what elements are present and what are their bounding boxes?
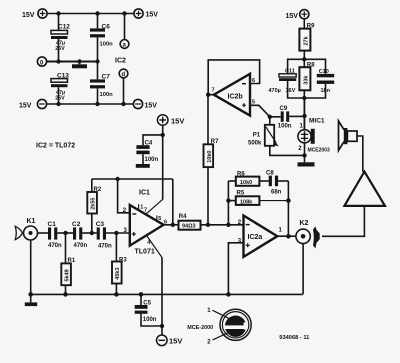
svg-text:100n: 100n <box>100 92 114 98</box>
node dot rail R1 <box>63 292 68 297</box>
wire C12 top <box>58 14 60 31</box>
capacitor C11 <box>279 59 304 98</box>
svg-text:C3: C3 <box>96 221 105 228</box>
connector K2 <box>296 220 310 244</box>
svg-text:C12: C12 <box>58 24 70 31</box>
svg-text:2k55: 2k55 <box>91 198 97 210</box>
node dot R2 bottom <box>90 231 94 235</box>
-15V terminal bottom-right <box>133 99 142 108</box>
pin 1 leader mic pinout <box>213 310 229 318</box>
node dot C7 bottom <box>95 102 99 106</box>
connector K1 <box>24 218 38 240</box>
svg-text:7: 7 <box>144 207 147 213</box>
node dot IC2a out <box>286 234 291 239</box>
svg-text:C11: C11 <box>285 69 295 75</box>
node dot P1 top <box>268 115 272 119</box>
resistor R5 <box>228 196 288 205</box>
svg-text:100n: 100n <box>145 157 159 163</box>
node dot R5 right <box>286 198 291 203</box>
microphone MIC1 <box>298 98 315 162</box>
svg-text:R3: R3 <box>119 258 127 264</box>
svg-text:IC2b: IC2b <box>228 93 243 100</box>
capacitor C4 <box>136 145 149 154</box>
capacitor C6 <box>90 28 105 37</box>
svg-text:R8: R8 <box>307 63 315 69</box>
svg-text:IC2a: IC2a <box>248 234 263 241</box>
node dot C12-C13 <box>56 59 60 63</box>
resistor R6 <box>228 177 259 186</box>
wire IC2b feedback loop <box>208 60 259 95</box>
capacitor C8 <box>259 176 288 187</box>
svg-text:15V: 15V <box>145 102 158 109</box>
svg-text:C1: C1 <box>48 221 57 228</box>
svg-text:15V: 15V <box>286 13 299 20</box>
svg-text:33k: 33k <box>303 75 309 85</box>
node dot R1 top <box>63 231 67 235</box>
svg-text:MIC1: MIC1 <box>309 118 325 125</box>
resistor R2 <box>87 179 97 233</box>
svg-text:470µ: 470µ <box>269 88 281 94</box>
wire C8R5 right vertical <box>287 181 289 236</box>
node dot feedback <box>115 177 119 181</box>
svg-text:15V: 15V <box>171 116 184 125</box>
node dot C12 top <box>56 11 60 15</box>
svg-text:25V: 25V <box>55 95 65 101</box>
svg-text:K1: K1 <box>27 218 36 225</box>
op-amp IC2b <box>214 74 250 116</box>
wire feedback right drop <box>172 179 174 225</box>
wire IC1 feedback top <box>92 178 173 180</box>
node dot d bottom <box>121 102 125 106</box>
node dot C6 top <box>95 11 99 15</box>
wire IC2a pin3 <box>228 243 243 295</box>
svg-text:100n: 100n <box>100 41 114 47</box>
wire IC1 out to R4 <box>164 224 179 226</box>
node dot IC1 out <box>171 223 175 227</box>
op-amp IC2a <box>244 216 278 257</box>
resistor R3 <box>112 233 122 294</box>
resistor R9 <box>299 19 310 68</box>
output arrow K2 <box>313 226 320 248</box>
capacitor C5 <box>135 294 162 326</box>
svg-text:R6: R6 <box>237 171 245 177</box>
wire d stub <box>123 78 125 104</box>
input arrow K1 <box>15 226 22 239</box>
svg-text:d: d <box>122 72 126 78</box>
svg-text:R1: R1 <box>68 258 76 264</box>
capacitor C7 <box>90 79 105 88</box>
svg-text:470n: 470n <box>98 244 112 250</box>
node a <box>120 40 129 49</box>
capacitor C2 <box>73 227 82 239</box>
wire a stub <box>124 14 126 40</box>
svg-text:16V: 16V <box>286 88 296 94</box>
wire IC2b pin5 <box>250 105 270 117</box>
svg-text:C10: C10 <box>319 69 329 75</box>
wire C7 bottom <box>97 88 99 104</box>
wire C6 bottom <box>97 37 99 79</box>
ground PSU <box>72 62 87 69</box>
svg-text:15V: 15V <box>22 12 35 19</box>
pin 4 diagonal IC1 <box>147 235 163 257</box>
resistor R7 <box>204 95 214 225</box>
node dot rail R3 <box>114 292 119 297</box>
wire R4 to IC2a <box>201 224 244 226</box>
amplifier triangle <box>344 172 385 206</box>
wire K1 to C1 <box>38 232 49 234</box>
svg-text:470n: 470n <box>74 243 88 249</box>
wire IC2b out <box>208 94 214 96</box>
wire K1 shield down <box>30 240 32 294</box>
resistor R8 <box>299 67 310 130</box>
node dot C4 branch <box>161 133 165 137</box>
wire C6 top <box>97 14 99 29</box>
wire C1 to C2 <box>57 232 73 234</box>
svg-text:27k: 27k <box>303 35 309 45</box>
ground MIC1 <box>298 162 315 166</box>
svg-text:R4: R4 <box>179 214 187 220</box>
svg-text:C4: C4 <box>145 140 153 146</box>
wire +15V down to pin7 <box>162 125 164 199</box>
svg-text:934068 - 11: 934068 - 11 <box>279 335 309 341</box>
potentiometer P1 <box>265 117 305 156</box>
svg-text:45k3: 45k3 <box>115 267 121 279</box>
node dot C9 right <box>302 114 306 118</box>
svg-text:C13: C13 <box>57 73 69 80</box>
wire C2 to C3 <box>82 232 96 234</box>
wire 0V rail <box>46 61 97 63</box>
svg-text:MCE2003: MCE2003 <box>308 147 330 153</box>
svg-text:7: 7 <box>212 88 215 94</box>
node dot P1 bottom wire <box>302 153 306 157</box>
wire IC2a out <box>277 235 296 237</box>
svg-text:P1: P1 <box>253 132 261 138</box>
pin 7 supply diagonal IC1 <box>146 199 163 214</box>
capacitor C12 <box>51 30 68 39</box>
svg-text:100n: 100n <box>143 317 157 323</box>
svg-text:15V: 15V <box>169 337 182 346</box>
svg-text:25V: 25V <box>55 46 65 52</box>
+15V terminal top-left <box>38 9 47 18</box>
op-amp IC1 <box>130 205 164 246</box>
wire -15V rail <box>46 103 133 105</box>
wire C4 branch <box>143 135 163 145</box>
capacitor C13 <box>51 79 68 88</box>
wire IC1 pin4 to -15V <box>161 258 163 336</box>
resistor R4 <box>179 221 201 230</box>
svg-text:100n: 100n <box>278 124 292 130</box>
ground C4 <box>136 154 150 168</box>
0V terminal <box>37 57 46 66</box>
svg-text:5k49: 5k49 <box>64 269 70 281</box>
wire C13 bottom <box>58 87 60 104</box>
svg-text:15V: 15V <box>146 12 159 19</box>
svg-text:C8: C8 <box>266 170 274 176</box>
svg-text:6: 6 <box>252 78 255 84</box>
capacitor C9 <box>270 111 305 121</box>
svg-text:C7: C7 <box>102 74 111 81</box>
node dot rail left <box>28 292 33 297</box>
svg-text:C9: C9 <box>280 106 288 112</box>
svg-text:R9: R9 <box>307 23 315 29</box>
node dot R8 bottom <box>302 96 306 100</box>
ground symbol rail <box>25 294 37 306</box>
svg-text:C6: C6 <box>102 23 111 30</box>
node d <box>119 69 128 78</box>
svg-text:10k0: 10k0 <box>207 151 213 163</box>
svg-text:R7: R7 <box>211 139 219 145</box>
pin 5 stub IC1 <box>156 215 158 220</box>
svg-text:MCE-2000: MCE-2000 <box>187 325 213 331</box>
node dot R5 left <box>226 198 230 202</box>
node dot rail IC2a pin3 <box>226 292 231 297</box>
wire C12 bottom <box>58 39 60 62</box>
svg-text:C5: C5 <box>143 300 151 306</box>
node dot R5R6 branch <box>226 223 230 227</box>
svg-text:IC2: IC2 <box>115 58 126 65</box>
svg-text:94Ω3: 94Ω3 <box>182 224 196 230</box>
capacitor C10 <box>304 59 334 98</box>
node dot a stub <box>122 11 126 15</box>
svg-text:K2: K2 <box>300 220 309 227</box>
svg-text:500k: 500k <box>248 140 262 146</box>
node dot R9 bottom <box>302 57 306 61</box>
wire C3 to IC1 <box>106 232 130 234</box>
svg-text:68n: 68n <box>271 189 282 195</box>
node dot R7 bottom <box>206 223 210 227</box>
node dot IC2b out <box>206 93 210 97</box>
svg-text:R2: R2 <box>94 187 102 193</box>
svg-text:R5: R5 <box>237 190 245 196</box>
capacitor C3 <box>97 227 106 239</box>
wire K2 to amp <box>322 206 364 236</box>
wire R5R6 left vertical <box>227 181 229 225</box>
svg-text:TL071: TL071 <box>135 249 155 256</box>
svg-text:IC2 = TL072: IC2 = TL072 <box>36 143 75 150</box>
-15V terminal bottom <box>157 335 168 346</box>
node dot R3 top <box>114 231 118 235</box>
wire K2 shield down <box>302 244 304 295</box>
+15V terminal top-right <box>134 9 143 18</box>
capacitor C1 <box>48 227 57 239</box>
svg-text:C2: C2 <box>72 221 81 228</box>
ground rail <box>31 293 303 295</box>
+15V terminal mic bias <box>300 10 309 19</box>
svg-text:IC1: IC1 <box>139 190 150 197</box>
wire +15V rail <box>47 13 134 15</box>
resistor R1 <box>61 233 71 294</box>
svg-text:18n: 18n <box>321 88 331 94</box>
svg-text:470n: 470n <box>48 243 62 249</box>
pin 2 leader mic pinout <box>213 333 229 340</box>
node dot C13 bottom <box>56 102 60 106</box>
svg-text:10k0: 10k0 <box>240 180 252 186</box>
-15V terminal bottom-left <box>37 99 46 108</box>
node dot gnd stem <box>77 59 81 63</box>
node dot C6-C7 <box>95 59 99 63</box>
loudspeaker <box>339 121 363 172</box>
node dot C5 bottom <box>160 324 164 328</box>
+15V terminal mid <box>157 115 168 126</box>
wire feedback to pin2 <box>118 179 130 213</box>
svg-text:108k: 108k <box>240 199 253 205</box>
mic pinout rear view <box>220 309 251 340</box>
svg-text:5: 5 <box>158 216 161 222</box>
node dot rail C5 <box>139 292 144 297</box>
svg-text:1: 1 <box>140 205 143 211</box>
pin 1 stub IC1 <box>138 204 140 210</box>
svg-text:15V: 15V <box>19 102 32 109</box>
